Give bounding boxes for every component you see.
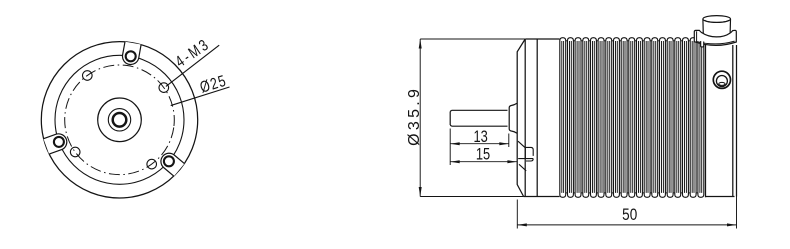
bolt circle (dash-dot, Ø25) bbox=[58, 58, 182, 182]
label 4-M3 bbox=[172, 35, 213, 71]
mounting tab 3 bbox=[44, 134, 67, 154]
mounting tab 2 bbox=[161, 153, 184, 176]
inner rim circle bbox=[55, 55, 184, 184]
endbell/can boundary line bbox=[536, 39, 538, 197]
top edge rear cap bbox=[706, 38, 737, 40]
rear set-screw hole bbox=[713, 71, 730, 88]
leader line Ø25 bbox=[171, 87, 230, 106]
shaft (thick ring) bbox=[113, 113, 127, 127]
mounting tab 1 bbox=[122, 42, 141, 65]
endbell wire tab detail bbox=[518, 141, 533, 171]
bullet connector cylinder bbox=[703, 16, 731, 35]
label Ø25 bbox=[198, 72, 229, 97]
bearing circle bbox=[108, 109, 130, 131]
left view: motor front face bbox=[41, 42, 197, 198]
flange inner lower line bbox=[696, 41, 735, 44]
leader line 4-M3 bbox=[166, 45, 219, 86]
M3 hole 3 bbox=[147, 159, 157, 169]
flange crimp tab bbox=[701, 41, 704, 47]
bottom edge rear cap bbox=[706, 196, 735, 198]
rear right edge bbox=[736, 45, 738, 197]
tab hole 2 bbox=[164, 156, 174, 166]
svg-text:50: 50 bbox=[622, 206, 637, 225]
svg-text:15: 15 bbox=[476, 146, 490, 164]
flange left tick bbox=[696, 31, 698, 41]
dimension Ø35.9 bbox=[420, 39, 525, 197]
cooling fins bbox=[560, 38, 704, 198]
tab hole 1 bbox=[126, 51, 136, 61]
flange edge line bbox=[524, 39, 526, 197]
dimension 50 bbox=[517, 197, 736, 229]
M3 hole 1 bbox=[83, 71, 93, 81]
svg-text:13: 13 bbox=[473, 129, 487, 147]
front flange face with chamfers bbox=[517, 39, 525, 197]
bottom edge left smooth section bbox=[524, 196, 560, 198]
dimension 15 bbox=[450, 161, 517, 163]
dimension 13 bbox=[450, 129, 509, 166]
side view body outline bbox=[517, 38, 736, 197]
connector base flange bbox=[694, 30, 736, 45]
outer circle (flange OD) bbox=[41, 42, 197, 198]
top edge left smooth section bbox=[525, 38, 559, 40]
center hub circle bbox=[98, 98, 142, 142]
svg-text:Ø35.9: Ø35.9 bbox=[406, 86, 423, 146]
shaft bbox=[450, 103, 517, 133]
rear cap inner edge bbox=[732, 45, 734, 197]
M3 hole 4 bbox=[70, 147, 80, 157]
M3 hole 2 bbox=[159, 83, 169, 93]
tab hole 3 bbox=[54, 137, 64, 147]
rear cap boundary bbox=[705, 38, 707, 197]
shaft collar bbox=[509, 103, 517, 133]
